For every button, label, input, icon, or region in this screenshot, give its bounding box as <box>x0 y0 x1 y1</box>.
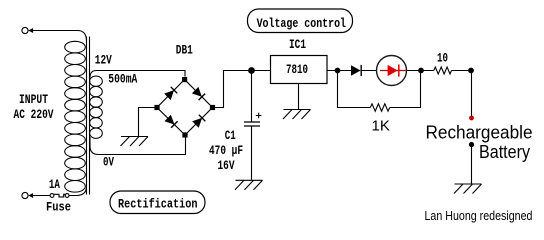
wire C1 top lead <box>251 71 253 122</box>
svg-text:470 µF: 470 µF <box>209 144 243 158</box>
transformer T1 secondary winding <box>90 76 103 138</box>
svg-text:Lan Huong redesigned: Lan Huong redesigned <box>425 209 533 223</box>
node junction C1 <box>248 67 255 74</box>
bridge diode left-top <box>164 90 174 100</box>
terminal J1 (AC input top) <box>22 27 33 33</box>
wire top primary lead <box>33 31 87 42</box>
bridge diode bottom-right <box>192 118 202 128</box>
wire C1 bottom lead <box>251 126 253 180</box>
wire 1K branch left <box>338 71 371 108</box>
wire primary bottom to fuse <box>69 186 87 195</box>
bridge diode left-bottom <box>164 115 174 125</box>
node LED-resistor junction <box>418 68 424 74</box>
svg-text:AC 220V: AC 220V <box>14 108 54 122</box>
svg-text:7810: 7810 <box>286 63 308 77</box>
ground G2 (C1) <box>235 180 263 190</box>
svg-text:10: 10 <box>437 52 448 66</box>
diode D1 <box>351 65 361 75</box>
svg-text:500mA: 500mA <box>108 73 137 87</box>
annotation box Voltage control <box>248 9 353 33</box>
svg-text:Rechargeable: Rechargeable <box>426 123 533 143</box>
transformer T1 primary winding <box>65 41 86 192</box>
node output junction <box>335 68 341 74</box>
wire battery positive lead <box>471 71 473 117</box>
wire bridge right vertex to IC1 input <box>213 71 271 108</box>
wire secondary bottom (0V) to bridge bottom <box>90 136 186 155</box>
wire IC1 ground pin <box>298 84 300 110</box>
wire battery negative lead <box>471 146 473 184</box>
bridge node right <box>210 105 215 110</box>
bridge node left <box>154 105 159 110</box>
node battery minus <box>469 142 474 147</box>
bridge diode top-right <box>192 87 202 97</box>
ground G3 (IC1) <box>283 110 311 120</box>
wire IC1 output <box>327 70 351 72</box>
wire secondary top (12V) to bridge top <box>90 71 185 78</box>
bridge node bottom <box>182 132 187 137</box>
svg-text:Battery: Battery <box>479 142 530 162</box>
wire resistor to battery node <box>452 70 472 72</box>
node battery plus (red) <box>469 116 474 121</box>
fuse F1 1A <box>50 194 69 198</box>
svg-text:12V: 12V <box>95 54 112 68</box>
wire fuse to bottom terminal <box>33 195 50 197</box>
C1 plus sign <box>256 113 262 119</box>
svg-text:1A: 1A <box>49 178 60 192</box>
wire diode to resistor 10 <box>361 70 434 72</box>
resistor R2 10 <box>434 67 452 74</box>
transformer core <box>87 37 90 195</box>
svg-text:16V: 16V <box>218 159 235 173</box>
wire 1K branch right <box>390 71 421 108</box>
ground G1 (bridge) <box>121 137 149 147</box>
svg-text:Fuse: Fuse <box>46 201 71 215</box>
node battery top junction <box>468 68 474 74</box>
svg-text:DB1: DB1 <box>176 44 193 58</box>
annotation box Rectification <box>110 191 205 214</box>
svg-text:Voltage control: Voltage control <box>257 17 346 31</box>
capacitor C1 plates <box>244 122 260 126</box>
svg-text:IC1: IC1 <box>289 38 306 52</box>
LED DS1 <box>377 56 407 86</box>
ground G4 (battery) <box>454 184 482 194</box>
svg-text:C1: C1 <box>225 129 236 143</box>
bridge rectifier DB1 diamond wires <box>157 80 213 136</box>
svg-text:0V: 0V <box>103 156 114 170</box>
voltage regulator IC1 box <box>271 56 328 84</box>
terminal J2 (AC input bottom) <box>22 192 33 198</box>
wire bridge left vertex to ground <box>139 108 158 137</box>
svg-text:Rectification: Rectification <box>118 197 198 211</box>
resistor R1 1K <box>370 104 389 111</box>
bridge node top <box>182 77 187 82</box>
svg-text:INPUT: INPUT <box>19 93 48 107</box>
svg-text:1K: 1K <box>372 117 390 134</box>
